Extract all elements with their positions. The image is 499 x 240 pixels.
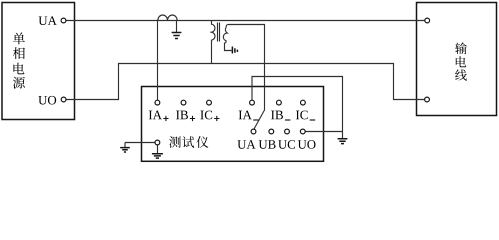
label 输电线 (transmission line) [455,42,467,80]
ground below case terminal [157,145,159,153]
terminal IB+ [181,100,186,105]
label IC- [296,111,308,120]
label UA (source) [39,16,57,25]
wire: top line from UA terminal to transmission-line terminal [66,20,425,22]
label UO (source) [38,96,56,105]
terminal UA (tester) [251,129,256,134]
terminal UA (source) [61,18,66,23]
transformer core [218,23,220,42]
transformer secondary winding (right) with bottom lead [223,25,231,51]
wire: secondary top lead to UA tap, down, diagonal to UA terminal [228,25,265,130]
label 单相电源 (single-phase source) [13,32,25,88]
terminal IA+ [155,100,160,105]
ground under coil right end [176,21,178,33]
tester box [142,87,324,162]
terminal IC+ [207,100,212,105]
right box: transmission line [417,3,497,116]
label IB+ [176,111,188,120]
rotated ground at secondary bottom [232,47,237,54]
wire: tester case terminal to outside ground [125,142,155,144]
label IB- [271,111,283,120]
terminal IA- [250,100,255,105]
terminal UO (tester) [300,129,305,134]
transformer primary winding (left) and leads [210,21,215,64]
terminal UB [269,129,274,134]
wire: coil left end down to IA+ terminal [157,21,159,101]
inductor coil (two humps) on top wire [158,15,177,21]
label IA+ [149,111,162,120]
wire: tester UO terminal to ground riser [305,131,342,133]
terminal line top [425,18,430,23]
label 测试仪 (tester) [169,136,208,148]
label UO (tester) [298,140,316,149]
label IA- [239,111,252,120]
left box: single-phase source [2,3,75,120]
wire: UO line, left riser, middle bus, right riser to line box bottom terminal [66,64,425,100]
terminal UC [285,129,290,134]
label UA (tester) [237,140,255,149]
terminal IB- [277,100,282,105]
terminal line bottom [425,97,430,102]
label IC+ [200,111,212,120]
ground at right of tester [338,139,348,144]
ground outside tester (left) [124,143,126,148]
terminal UO (source) [61,97,66,102]
wire: IA- terminal up, across, down to right ground [252,77,343,139]
label UC (tester) [278,140,295,149]
label UB (tester) [259,140,276,149]
terminal IC- [301,100,306,105]
terminal case ground [155,140,160,145]
